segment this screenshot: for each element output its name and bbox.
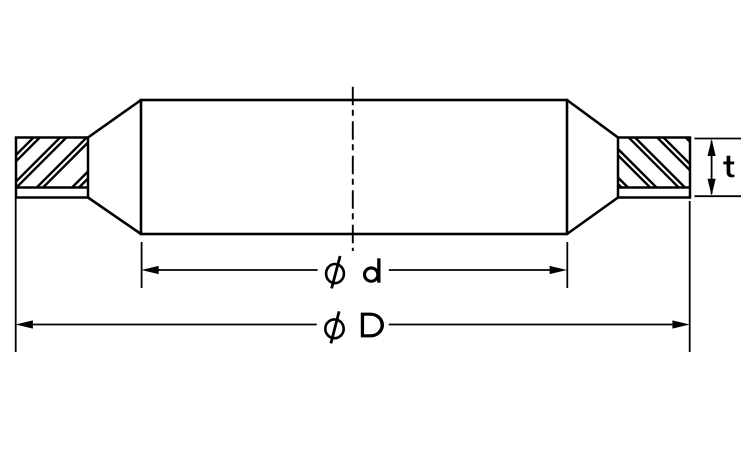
phi-d dimension line right segment xyxy=(389,269,558,271)
washer body outline xyxy=(141,100,567,234)
phi-d left arrowhead xyxy=(141,266,158,274)
phi-D left extension line xyxy=(15,198,17,352)
t bottom arrowhead xyxy=(708,179,716,196)
right flange section box xyxy=(618,138,690,198)
phi-D dimension line left segment xyxy=(24,324,317,326)
phi-d right extension line xyxy=(566,242,568,288)
label d xyxy=(365,258,381,282)
label D xyxy=(361,313,384,338)
label t xyxy=(723,156,734,178)
left flange inner line xyxy=(16,186,88,188)
phi symbol for D xyxy=(325,311,343,343)
t bottom extension line xyxy=(695,195,742,197)
phi-d dimension line left segment xyxy=(150,269,318,271)
centerline xyxy=(352,87,354,251)
left top chamfer line xyxy=(88,100,141,138)
phi-D dimension line right segment xyxy=(389,324,681,326)
left section hatching xyxy=(0,100,167,200)
t dimension line xyxy=(711,141,713,194)
t top arrowhead xyxy=(708,139,716,156)
left bottom chamfer line xyxy=(88,198,141,235)
right flange inner line xyxy=(618,186,690,188)
phi symbol for d xyxy=(326,256,344,288)
right top chamfer line xyxy=(567,100,618,138)
right section hatching xyxy=(534,100,748,200)
phi-D right extension line xyxy=(689,201,691,352)
t top extension line xyxy=(695,138,742,140)
right bottom chamfer line xyxy=(567,198,618,235)
phi-d left extension line xyxy=(141,242,143,288)
phi-D left arrowhead xyxy=(16,320,33,328)
phi-D right arrowhead xyxy=(672,320,689,328)
phi-d right arrowhead xyxy=(550,266,567,274)
left flange section box xyxy=(16,138,88,198)
